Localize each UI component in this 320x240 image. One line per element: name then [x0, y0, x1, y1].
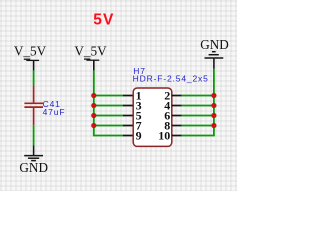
svg-text:10: 10 — [158, 128, 170, 142]
svg-text:HDR-F-2.54_2x5: HDR-F-2.54_2x5 — [133, 73, 209, 83]
svg-text:GND: GND — [19, 160, 48, 175]
svg-text:9: 9 — [136, 128, 142, 142]
svg-text:GND: GND — [200, 37, 229, 52]
svg-text:47uF: 47uF — [43, 107, 66, 117]
svg-text:V_5V: V_5V — [74, 44, 107, 59]
svg-text:5V: 5V — [93, 11, 114, 28]
svg-text:V_5V: V_5V — [14, 44, 47, 59]
